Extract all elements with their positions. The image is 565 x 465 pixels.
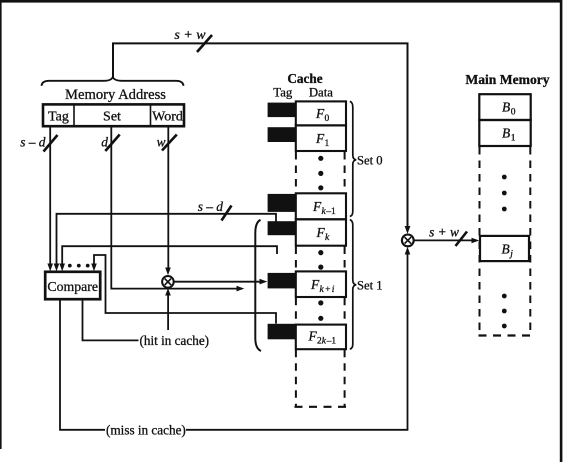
svg-text:F: F <box>316 225 326 240</box>
svg-text:Cache: Cache <box>287 71 322 86</box>
main memory dashed right <box>529 147 531 335</box>
svg-text:k + i: k + i <box>320 285 335 295</box>
main memory dots below Bj <box>502 294 507 299</box>
arrowhead word wire into selector <box>165 268 171 276</box>
svg-text:s + w: s + w <box>174 28 206 43</box>
svg-text:w: w <box>157 135 166 150</box>
cache data box F0 <box>296 101 346 125</box>
svg-text:(hit in cache): (hit in cache) <box>140 333 210 348</box>
svg-text:1: 1 <box>325 139 330 149</box>
svg-text:F: F <box>308 329 318 344</box>
cache dashed outline left gap3 <box>295 298 297 324</box>
wire word field down to word selector circle <box>167 128 169 270</box>
border frame top <box>0 0 562 3</box>
wire set field down and right into set bracket <box>111 128 238 289</box>
dots between compare input arrows <box>68 264 72 268</box>
set 1 left parenthesis bracket <box>255 220 261 351</box>
set 0 right brace <box>350 101 357 216</box>
svg-text:B: B <box>502 242 510 257</box>
cache tag box Fk-1 <box>268 194 296 212</box>
arrowhead stub wire into compare <box>59 264 65 272</box>
cache dashed outline right below <box>344 350 346 408</box>
memory address box <box>43 104 184 126</box>
wire hit in cache <box>83 300 139 341</box>
main memory selector circle (x) <box>402 235 414 247</box>
svg-text:Memory Address: Memory Address <box>65 87 166 103</box>
slash on word wire <box>162 135 177 151</box>
arrowhead tag wire into compare <box>47 264 53 272</box>
svg-text:–1: –1 <box>325 207 336 217</box>
svg-text:Main Memory: Main Memory <box>465 72 549 87</box>
svg-text:1: 1 <box>511 134 516 144</box>
svg-text:F: F <box>315 131 325 146</box>
main memory box Bj <box>480 236 529 261</box>
wire s+w top horizontal <box>113 43 408 228</box>
word selector circle (x) <box>162 276 174 288</box>
arrowhead into F_k+i tag <box>260 279 268 285</box>
arrowhead into Bj <box>472 238 480 244</box>
svg-text:Data: Data <box>309 85 333 99</box>
slash on s-d mid wire <box>222 206 232 221</box>
cache tag box Fk <box>268 221 296 235</box>
cache dashed outline bottom <box>295 406 350 408</box>
divider Set|Word <box>150 104 152 126</box>
svg-text:s + w: s + w <box>429 224 459 239</box>
set 1 right brace <box>350 220 357 349</box>
cache dashed outline right gap3 <box>344 298 346 324</box>
wire miss in cache <box>60 300 105 430</box>
cache dashed outline left below <box>295 350 297 408</box>
arrowhead branch into selector bottom <box>165 288 171 295</box>
main memory box B1 <box>479 120 530 146</box>
cache data box F1 <box>296 125 346 151</box>
svg-text:Set: Set <box>103 110 121 125</box>
border frame right <box>560 0 563 462</box>
cache data box F2k-1 <box>296 325 346 350</box>
svg-text:0: 0 <box>325 114 330 124</box>
svg-text:Tag: Tag <box>273 85 293 99</box>
svg-text:Word: Word <box>152 110 183 125</box>
slash on tag wire <box>44 135 58 152</box>
cache dashed outline right gap2 <box>344 247 346 271</box>
cache data box Fk <box>296 219 346 245</box>
main memory box B0 <box>479 94 530 120</box>
wire F_2k-1 tag to compare hook <box>94 255 276 324</box>
svg-text:Tag: Tag <box>48 110 69 125</box>
cache data box Fk-1 <box>296 193 346 219</box>
arrowhead hook wire into compare <box>91 264 97 272</box>
svg-text:0: 0 <box>511 108 516 118</box>
wire miss to main memory selector <box>186 253 408 430</box>
divider Tag|Set <box>73 104 75 126</box>
brace over memory address <box>42 77 184 86</box>
cache dashed outline left gap1 <box>295 152 297 193</box>
cache data box Fk+i <box>296 271 346 297</box>
svg-text:B: B <box>502 100 510 115</box>
cache dots gap3 <box>318 300 323 305</box>
arrowhead into selector circle top <box>405 226 411 234</box>
arrowhead miss wire into selector bottom <box>405 247 411 255</box>
svg-text:Set 0: Set 0 <box>357 154 383 168</box>
cache tag box F1 <box>268 127 296 142</box>
cache dots gap2 <box>318 250 323 255</box>
svg-text:Set 1: Set 1 <box>357 279 383 293</box>
svg-text:F: F <box>315 106 325 121</box>
wire tag field down to compare <box>49 128 51 267</box>
main memory dashed left <box>479 147 481 335</box>
cache tag box Fk+i <box>268 273 296 289</box>
wire s-d from F_k tag to compare <box>57 214 277 266</box>
cache tag box F2k-1 <box>268 324 296 340</box>
svg-text:(miss in cache): (miss in cache) <box>106 422 186 437</box>
wire elided tag stub to compare <box>62 246 277 266</box>
slash on s+w top wire <box>197 35 212 52</box>
cache tag box F0 <box>268 103 296 118</box>
border frame left <box>0 0 2 449</box>
main memory dashed bottom <box>479 334 532 336</box>
wire selector to Bj <box>414 239 474 241</box>
arrowhead s-d wire into compare <box>54 264 60 272</box>
svg-text:s – d: s – d <box>198 199 224 214</box>
cache dashed outline left gap2 <box>295 247 297 271</box>
svg-text:s – d: s – d <box>20 135 46 150</box>
svg-text:F: F <box>310 277 320 292</box>
compare box <box>45 272 100 299</box>
svg-text:F: F <box>312 199 322 214</box>
arrowhead set select wire <box>237 286 245 292</box>
svg-text:Compare: Compare <box>47 279 98 294</box>
svg-text:–1: –1 <box>326 337 337 347</box>
wire branch up into word selector bottom <box>167 294 169 331</box>
main memory dots above Bj <box>502 175 507 180</box>
svg-text:B: B <box>502 126 510 141</box>
svg-text:d: d <box>101 135 108 150</box>
cache dots set0 <box>318 156 323 161</box>
wire word selector to F_k+i tag <box>174 281 262 283</box>
slash on s+w right wire <box>456 232 468 247</box>
cache dashed outline right gap1 <box>344 152 346 193</box>
slash on set wire <box>105 135 119 152</box>
